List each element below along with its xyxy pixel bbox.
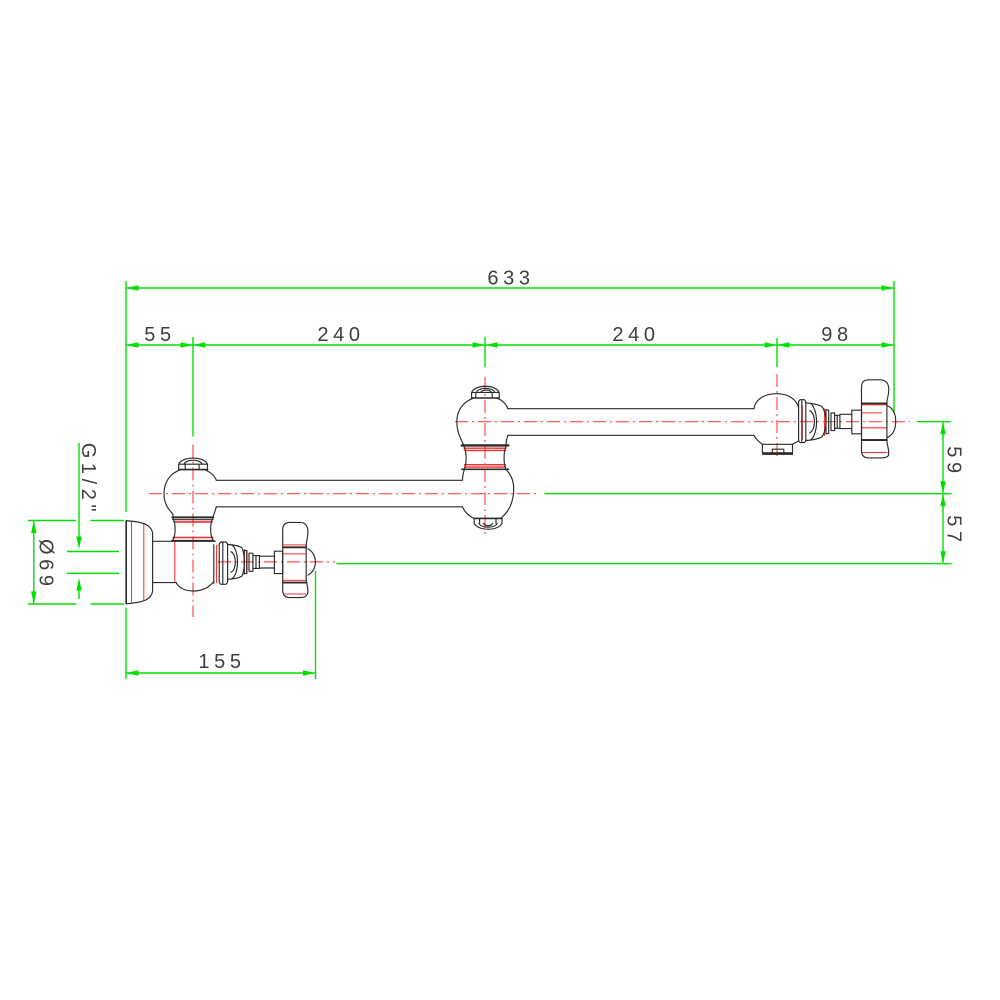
svg-text:59: 59 [943,446,965,477]
arrows diameter 69 [31,521,36,534]
valve knob B end cap [308,549,316,575]
svg-text:Ø69: Ø69 [34,539,56,591]
lower arm tube [216,480,462,507]
arrow pair at x193 [181,342,194,347]
elbow bell red lines [173,522,214,538]
svg-text:G1/2": G1/2" [77,443,99,516]
extension line y551.5 [67,551,119,553]
extension line y573.3 [67,572,119,574]
right packing rings [826,409,829,434]
extension line y493.7 right [545,493,952,495]
knob D [862,380,889,458]
right elbow ball [754,394,799,409]
arrows 57 [940,494,945,507]
valve bonnet dome [228,545,245,580]
wall elbow cap nut [179,458,208,464]
center joint upper ball [457,398,475,445]
arrow row2 at x894 [882,342,895,347]
centerline lower arm y493.7 [149,493,539,495]
extension line x315.5 for 155 [315,571,317,679]
arrows 155 [126,670,139,675]
upper arm tube [508,409,754,436]
valve knob B dark lines [283,547,306,582]
svg-text:55: 55 [144,324,175,346]
extension line x777 [776,338,778,367]
centerline vertical x193 [192,445,194,618]
extension lines flange bottom y604 [28,603,124,605]
dimension line 633 [126,287,894,289]
valve body red line [174,542,176,583]
center joint waist [462,444,509,446]
extension line y421.7 right [917,421,951,423]
valve hub [274,551,282,573]
center joint bottom cap nut [474,518,502,523]
knob B red lines [283,545,306,594]
right stem [840,414,852,428]
extension line x193 [192,337,194,437]
center joint top cap nut [472,386,500,392]
valve stem [259,556,274,568]
right bonnet dome [806,403,826,441]
center joint lower ball [463,470,475,519]
arrows 59 [940,422,945,435]
wall elbow bell collar [172,516,213,518]
joint waist red lines [464,448,507,467]
right bonnet ring [799,400,806,443]
centerline upper arm y421.7 [455,421,910,423]
svg-text:155: 155 [198,651,245,673]
centerline vertical x485 [484,377,486,537]
dimension line diameter 69 [33,521,35,605]
dimension line 57 [942,494,944,564]
knob D dark lines [862,403,887,440]
valve bonnet ring 1 [213,545,215,584]
extension line y563.7 right [337,563,952,565]
centerline vertical x777 [776,374,778,460]
arrow pair at x777 [765,342,778,347]
valve knob B [283,522,308,597]
extension line x485 [484,337,486,367]
dimension line row 55/240/240/98 [126,344,894,346]
arrows row2 at x126 [126,342,139,347]
dimension line 155 [126,672,316,674]
wall elbow ball [164,470,181,518]
knob D red lines [862,405,888,453]
svg-text:98: 98 [821,324,852,346]
knob D end cap [887,406,896,438]
dimension stems G1/2 [78,443,80,599]
svg-text:240: 240 [612,324,659,346]
centerline valve y561.9 [218,561,335,563]
arrows 633 [126,285,139,290]
bonnet D red lines [802,405,824,440]
bonnet B red lines [217,545,247,583]
svg-text:240: 240 [317,324,364,346]
svg-text:57: 57 [943,515,965,546]
valve body barrel [153,541,216,582]
right elbow outlet [762,444,792,452]
extension lines flange top y520.5 [28,520,124,522]
flange red lines [132,522,144,603]
svg-text:633: 633 [487,268,534,290]
arrows G1/2 [76,537,81,550]
arrow pair at x485 [473,342,486,347]
extension line right x894 [893,281,895,413]
right hub [852,410,862,434]
extension line left x126 [125,281,127,679]
green arrowheads [31,285,946,675]
valve packing rings [244,550,247,575]
dimension line 59 [942,422,944,494]
wall flange [125,521,127,604]
